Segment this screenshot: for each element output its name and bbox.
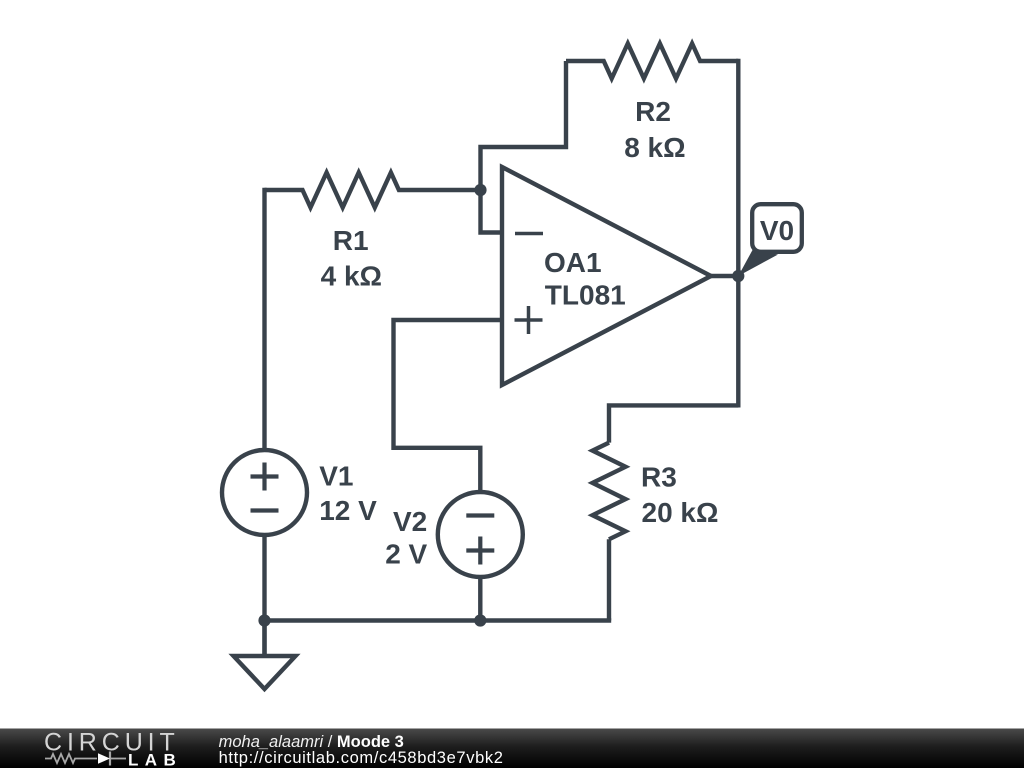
svg-text:http://circuitlab.com/c458bd3e: http://circuitlab.com/c458bd3e7vbk2 (219, 749, 504, 767)
junction node at inverting input (474, 184, 486, 196)
junction node at output (732, 270, 744, 282)
logo resistor-diode glyph (45, 752, 126, 766)
logo diode triangle (98, 753, 110, 764)
V2 minus sign (466, 513, 494, 517)
op-amp plus input symbol (515, 306, 543, 334)
wire non-inverting input to V2 top (394, 320, 503, 492)
svg-text:8 kΩ: 8 kΩ (624, 132, 685, 163)
wire R3 top connection (609, 405, 738, 442)
resistor R1 (265, 173, 481, 208)
wire op-amp output to node (711, 274, 738, 278)
voltage source V1 circle (222, 450, 307, 535)
V1 minus sign (251, 508, 279, 512)
svg-text:LAB: LAB (128, 751, 182, 768)
svg-text:V1: V1 (319, 461, 353, 492)
voltage source V2 circle (438, 492, 523, 577)
svg-text:R1: R1 (333, 225, 369, 256)
wire V2 bottom to ground bus (478, 577, 482, 621)
svg-text:4 kΩ: 4 kΩ (321, 261, 382, 292)
wire V1 bottom to ground node (262, 536, 266, 656)
ground symbol (262, 621, 266, 657)
wire left rail from R1 left lead down to V1 top (262, 188, 266, 450)
resistor R2 (566, 44, 738, 79)
svg-text:2 V: 2 V (385, 539, 427, 570)
svg-text:R2: R2 (635, 96, 671, 127)
node flag V0 pointer (738, 250, 778, 276)
svg-text:V2: V2 (393, 506, 427, 537)
junction node at V2 bottom (474, 614, 486, 626)
node flag V0 box (752, 204, 802, 252)
svg-text:OA1: OA1 (544, 247, 602, 278)
junction node at ground/V1 (258, 614, 270, 626)
svg-text:V0: V0 (760, 215, 794, 246)
wire output rail: R2 right lead down to R3 top lead (736, 59, 740, 408)
op-amp minus input symbol (515, 232, 543, 236)
footer bar (0, 729, 1024, 768)
svg-text:TL081: TL081 (545, 280, 626, 311)
svg-text:12 V: 12 V (319, 495, 377, 526)
resistor R3 (593, 443, 626, 540)
svg-text:R3: R3 (641, 462, 677, 493)
wire R3 bottom lead (607, 539, 611, 620)
op-amp OA1 triangle (502, 167, 711, 385)
wire ground bus (265, 618, 612, 622)
V1 plus sign (251, 463, 279, 491)
V2 plus sign (466, 537, 494, 565)
wire inverting-input node: from R2 left lead down and to op-amp minus input (481, 61, 567, 233)
svg-text:20 kΩ: 20 kΩ (642, 497, 719, 528)
